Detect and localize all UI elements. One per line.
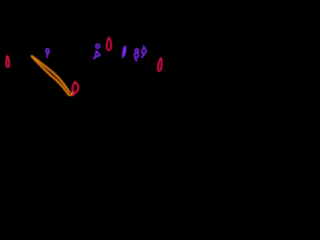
stroke S7: purple thick comma <box>122 46 125 57</box>
stroke S10: crimson tilted narrow loop (right) <box>158 58 162 71</box>
stroke S1: crimson narrow vertical loop (far left) <box>6 56 9 67</box>
stroke S3: long orange diagonal elongated loop with bottom hook <box>32 56 72 95</box>
black canvas background <box>0 0 200 113</box>
stroke S5: purple small oval over triangle <box>94 44 100 58</box>
stroke S9: purple diamond with spur and tail <box>142 46 147 57</box>
stroke S8: purple figure-eight with tail <box>134 49 138 61</box>
stroke S6: crimson candle/bottle loop <box>107 38 111 50</box>
stroke S2: purple balloon apostrophe with tail <box>46 49 49 57</box>
stroke S4: crimson flame-shaped loop at orange tip <box>72 82 78 95</box>
